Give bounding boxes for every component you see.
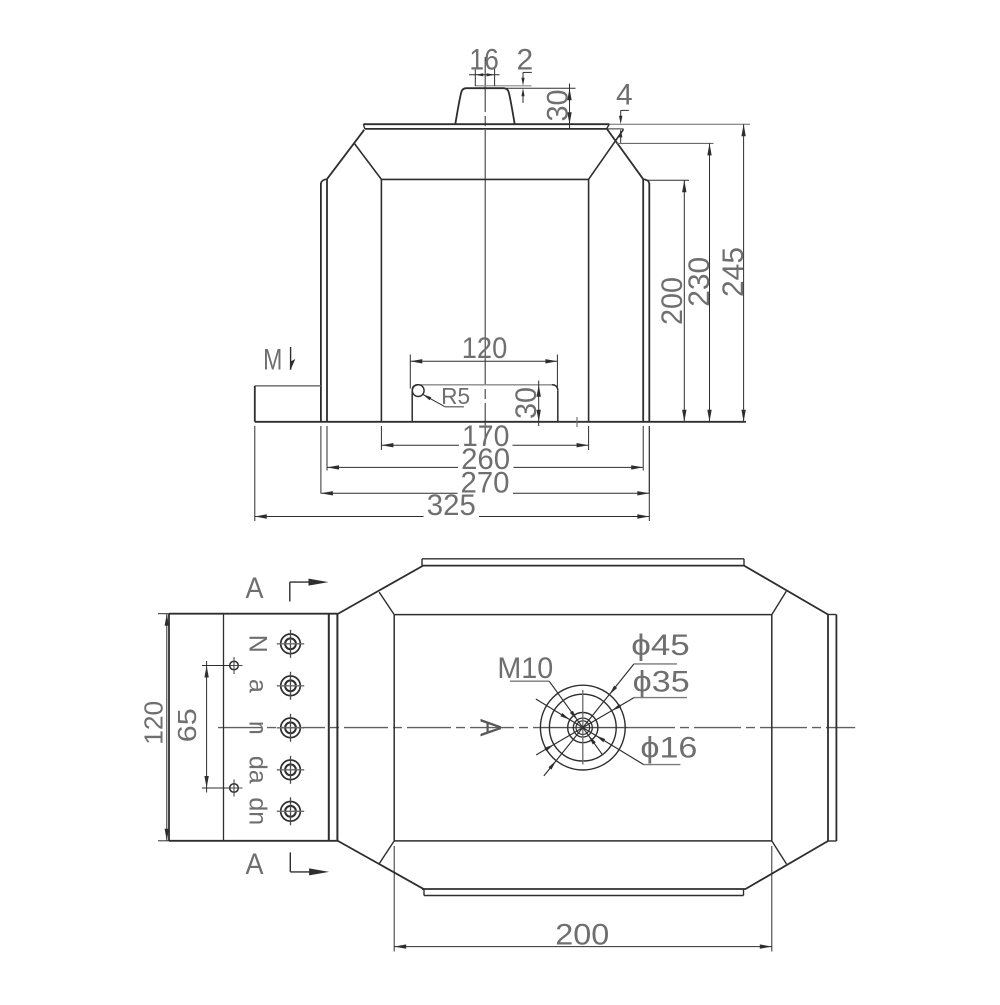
plate bottom short extension	[607, 128, 624, 130]
plan horizontal centerline	[218, 727, 540, 729]
terminal block divider	[223, 614, 225, 841]
svg-text:ϕ16: ϕ16	[640, 731, 697, 764]
svg-text:325: 325	[427, 489, 476, 522]
stray tick	[576, 417, 578, 427]
dimension 30 pad height	[569, 84, 571, 129]
pad 2mm top plate line	[475, 85, 531, 87]
dimension 200 plan	[393, 846, 395, 952]
dimension 230 vertical	[709, 143, 711, 421]
terminal dn	[281, 802, 301, 822]
svg-text:dn: dn	[244, 797, 272, 825]
plan inner rectangle	[394, 614, 772, 616]
dimension 270	[320, 426, 322, 494]
svg-text:ϕ45: ϕ45	[631, 629, 690, 662]
terminal pad trapezoid	[455, 88, 514, 124]
svg-text:n: n	[244, 721, 272, 735]
svg-text:A: A	[246, 572, 264, 605]
pad top extension line	[507, 87, 576, 89]
body top edge	[422, 565, 744, 567]
svg-text:2: 2	[517, 43, 534, 76]
right outer chamfer	[607, 129, 643, 179]
body bottom edge	[422, 888, 746, 890]
svg-text:230: 230	[683, 257, 716, 307]
svg-text:30: 30	[510, 387, 543, 419]
245 extension line	[609, 123, 750, 125]
mounting hole upper	[230, 661, 239, 670]
R5 fillet circle	[412, 385, 424, 397]
left side cap	[321, 179, 327, 183]
dimension 200 vertical	[683, 180, 685, 422]
right inner vertical	[642, 179, 644, 422]
svg-text:16: 16	[469, 43, 498, 76]
phi35 leader	[536, 698, 634, 755]
plan chamfer bottom-left	[337, 841, 424, 890]
dimension 245 vertical	[743, 124, 745, 422]
left outer chamfer	[327, 130, 364, 179]
mounting hole lower	[230, 784, 239, 793]
plan chamfer bottom-right	[746, 841, 829, 889]
svg-text:N: N	[244, 635, 272, 653]
terminal N	[281, 634, 301, 654]
right side cap	[643, 179, 649, 183]
svg-text:ϕ35: ϕ35	[633, 666, 690, 699]
dimension 170	[380, 426, 382, 450]
terminal da	[281, 760, 301, 780]
dimension 120 front	[409, 355, 411, 389]
corner branch bottom-right	[772, 841, 787, 864]
svg-text:4: 4	[616, 78, 633, 111]
svg-text:R5: R5	[441, 383, 470, 409]
M10 leader	[549, 681, 603, 755]
boss vertical centerline	[582, 690, 584, 765]
front view vertical centerline	[484, 57, 486, 112]
body top rib strip	[422, 558, 744, 560]
plan chamfer top-left	[337, 566, 423, 615]
dimension 30 notch	[538, 381, 540, 427]
M marker arrow	[290, 347, 292, 370]
bottom notch	[418, 384, 552, 386]
top flange plate	[363, 123, 609, 125]
phi45 leader	[544, 664, 634, 776]
230 extension line	[616, 142, 714, 144]
svg-text:120: 120	[138, 701, 168, 745]
dimension 260	[326, 426, 328, 471]
center boss circles	[540, 685, 625, 770]
left outer vertical	[320, 183, 322, 422]
left inner vertical	[326, 179, 328, 422]
terminal n	[281, 718, 301, 738]
inner window box	[381, 178, 588, 180]
svg-text:M: M	[263, 344, 282, 377]
right end cap	[827, 615, 829, 842]
svg-text:M10: M10	[497, 652, 553, 685]
corner branch top-left	[379, 592, 394, 614]
plan chamfer top-right	[744, 566, 828, 615]
bottom base line	[255, 421, 746, 423]
svg-text:30: 30	[541, 90, 574, 122]
body bottom rib strip	[424, 895, 744, 897]
right inner diagonal	[589, 129, 624, 179]
terminal block right double wall	[328, 614, 330, 841]
svg-text:da: da	[244, 756, 272, 784]
svg-text:245: 245	[717, 247, 750, 297]
200 extension line	[645, 179, 689, 181]
svg-text:65: 65	[172, 708, 202, 742]
left inner diagonal	[354, 143, 381, 179]
corner branch top-right	[772, 591, 787, 614]
dimension 65	[202, 665, 230, 667]
terminal a	[281, 676, 301, 696]
dimension 16	[474, 68, 476, 87]
svg-text:A: A	[246, 848, 264, 881]
phi16 leader	[536, 699, 644, 765]
svg-text:120: 120	[462, 332, 508, 365]
dimension 120 plan	[158, 613, 172, 615]
R5 leader	[423, 394, 445, 406]
left bracket	[255, 385, 321, 387]
svg-text:A: A	[474, 719, 507, 737]
corner branch bottom-left	[379, 841, 394, 864]
svg-text:a: a	[244, 679, 272, 693]
right outer vertical	[648, 183, 650, 422]
svg-text:200: 200	[555, 918, 609, 951]
terminal block outline	[169, 613, 337, 615]
dimension 325	[254, 426, 256, 521]
